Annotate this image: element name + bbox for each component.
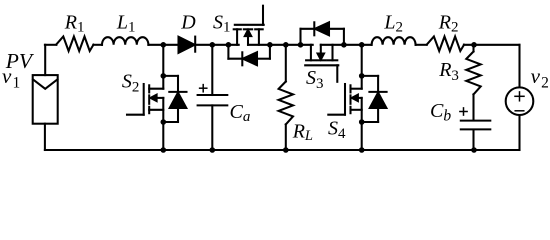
transistor S1: [234, 6, 264, 45]
svg-text:S1: S1: [213, 11, 231, 35]
svg-text:R1: R1: [64, 11, 85, 35]
node S2 top: [161, 42, 167, 48]
wire L2 to R2: [416, 44, 427, 46]
wire RL bottom: [285, 124, 287, 150]
wire PV top stub: [44, 45, 46, 75]
node S4 bottom: [359, 147, 365, 153]
node S2 bottom: [161, 147, 167, 153]
svg-text:Cb: Cb: [430, 100, 451, 125]
resistor R3 branch: [472, 45, 474, 52]
node RL bottom: [283, 147, 289, 153]
resistor R1: [56, 37, 93, 52]
diode S1 body (antiparallel below S1): [228, 45, 270, 66]
resistor R3: [466, 52, 480, 95]
wire R3 to Cb: [472, 94, 474, 119]
node S2 diode bottom: [161, 119, 167, 125]
wire L1 to diode D: [148, 44, 178, 46]
capacitor Ca: [198, 45, 228, 150]
svg-text:L1: L1: [116, 11, 136, 35]
wire Cb bottom: [472, 130, 474, 150]
svg-text:D: D: [180, 12, 196, 34]
transistor S2: [127, 45, 163, 150]
wire top-left to R1: [45, 44, 57, 46]
node S4 top: [359, 42, 365, 48]
diode S3 body (antiparallel above S3): [301, 22, 344, 45]
node S3 diode right: [341, 42, 347, 48]
node S4 diode bottom: [359, 119, 365, 125]
capacitor Cb: [460, 108, 490, 129]
node Cb bottom: [471, 147, 477, 153]
resistor RL branch wire top: [285, 45, 287, 82]
svg-text:S3: S3: [306, 67, 324, 92]
resistor R2: [427, 37, 464, 52]
transistor S4: [328, 45, 361, 150]
wire R2 to top-right corner: [464, 44, 520, 46]
svg-text:Ca: Ca: [230, 101, 251, 125]
resistor RL: [279, 82, 293, 125]
node S2 diode top: [161, 73, 167, 79]
node S1 diode left: [226, 42, 232, 48]
svg-text:RL: RL: [292, 121, 313, 145]
wire R1 to L1: [93, 44, 102, 46]
svg-text:L2: L2: [383, 11, 403, 35]
wire S3 source segment: [321, 44, 372, 46]
transistor S3: [305, 45, 338, 82]
svg-text:S2: S2: [122, 71, 139, 96]
diode S2 body: [163, 76, 186, 122]
PV source v1: [33, 75, 58, 124]
node S1 diode right: [267, 42, 273, 48]
diode S4 body: [362, 76, 387, 122]
diode D: [179, 37, 196, 53]
voltage source v2: [506, 45, 534, 150]
wire D to S1 drain: [195, 44, 239, 46]
node Ca bottom: [210, 147, 216, 153]
inductor L1: [102, 37, 148, 45]
svg-text:v2: v2: [531, 64, 549, 92]
svg-text:R3: R3: [438, 59, 459, 84]
inductor L2: [372, 37, 416, 45]
wire PV bottom stub: [44, 124, 46, 150]
node Ca top: [210, 42, 216, 48]
svg-text:R2: R2: [438, 11, 459, 35]
wire S1 source segment: [248, 44, 313, 46]
node R3 top: [471, 42, 477, 48]
node S4 diode top: [359, 73, 365, 79]
svg-text:S4: S4: [328, 117, 346, 142]
wire bottom bus: [45, 149, 520, 151]
node RL top: [283, 42, 289, 48]
node S3 diode left: [298, 42, 304, 48]
